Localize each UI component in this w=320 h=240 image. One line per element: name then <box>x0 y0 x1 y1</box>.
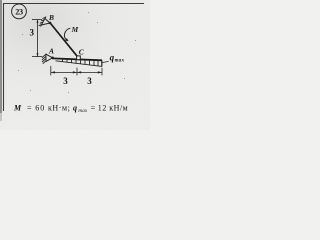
svg-text:кН/м: кН/м <box>109 103 128 112</box>
caption M = 60 kN*m ; q_max = 12 kN/m <box>13 103 128 114</box>
support A wall (hatched) <box>42 54 46 64</box>
svg-text:B: B <box>48 13 54 22</box>
svg-text:кН·м;: кН·м; <box>48 103 70 112</box>
q_max leader line <box>102 61 109 62</box>
distributed load envelope (triangular, below beam) <box>56 61 102 67</box>
frame left line <box>3 4 5 112</box>
svg-text:A: A <box>48 47 54 56</box>
bottom dimension arrowheads <box>51 71 102 73</box>
pin B <box>49 22 52 25</box>
frame top line <box>3 3 144 5</box>
svg-text:3: 3 <box>30 28 35 38</box>
distributed load right edge <box>101 60 103 66</box>
rod BC <box>50 23 77 56</box>
svg-text:12: 12 <box>98 103 107 112</box>
label q_max (figure) <box>110 52 125 63</box>
svg-text:60: 60 <box>35 103 45 112</box>
svg-text:23: 23 <box>15 7 23 16</box>
moment M arc <box>64 28 70 40</box>
svg-text:max: max <box>115 59 125 64</box>
support B bracket triangle <box>41 19 50 26</box>
dimension 3 (vertical, between B and A) <box>32 20 42 57</box>
hinge C (slider square) <box>77 56 81 60</box>
svg-text:М: М <box>13 103 22 112</box>
support A bracket triangle <box>46 54 53 61</box>
svg-text:=: = <box>91 103 96 112</box>
svg-text:3: 3 <box>87 76 92 86</box>
scan gutter band left edge <box>0 0 2 113</box>
svg-text:max: max <box>78 109 88 114</box>
svg-text:q: q <box>73 103 77 112</box>
scan speckles <box>18 12 136 93</box>
svg-text:3: 3 <box>63 76 68 86</box>
pin A <box>51 57 54 60</box>
circled number 23 <box>12 4 27 19</box>
support B wall (hatched) <box>39 17 46 27</box>
svg-text:M: M <box>71 25 79 34</box>
bottom dimension witness lines <box>51 66 102 75</box>
distributed load ticks <box>63 59 99 66</box>
beam A to right end <box>53 58 102 60</box>
svg-text:=: = <box>27 103 32 112</box>
